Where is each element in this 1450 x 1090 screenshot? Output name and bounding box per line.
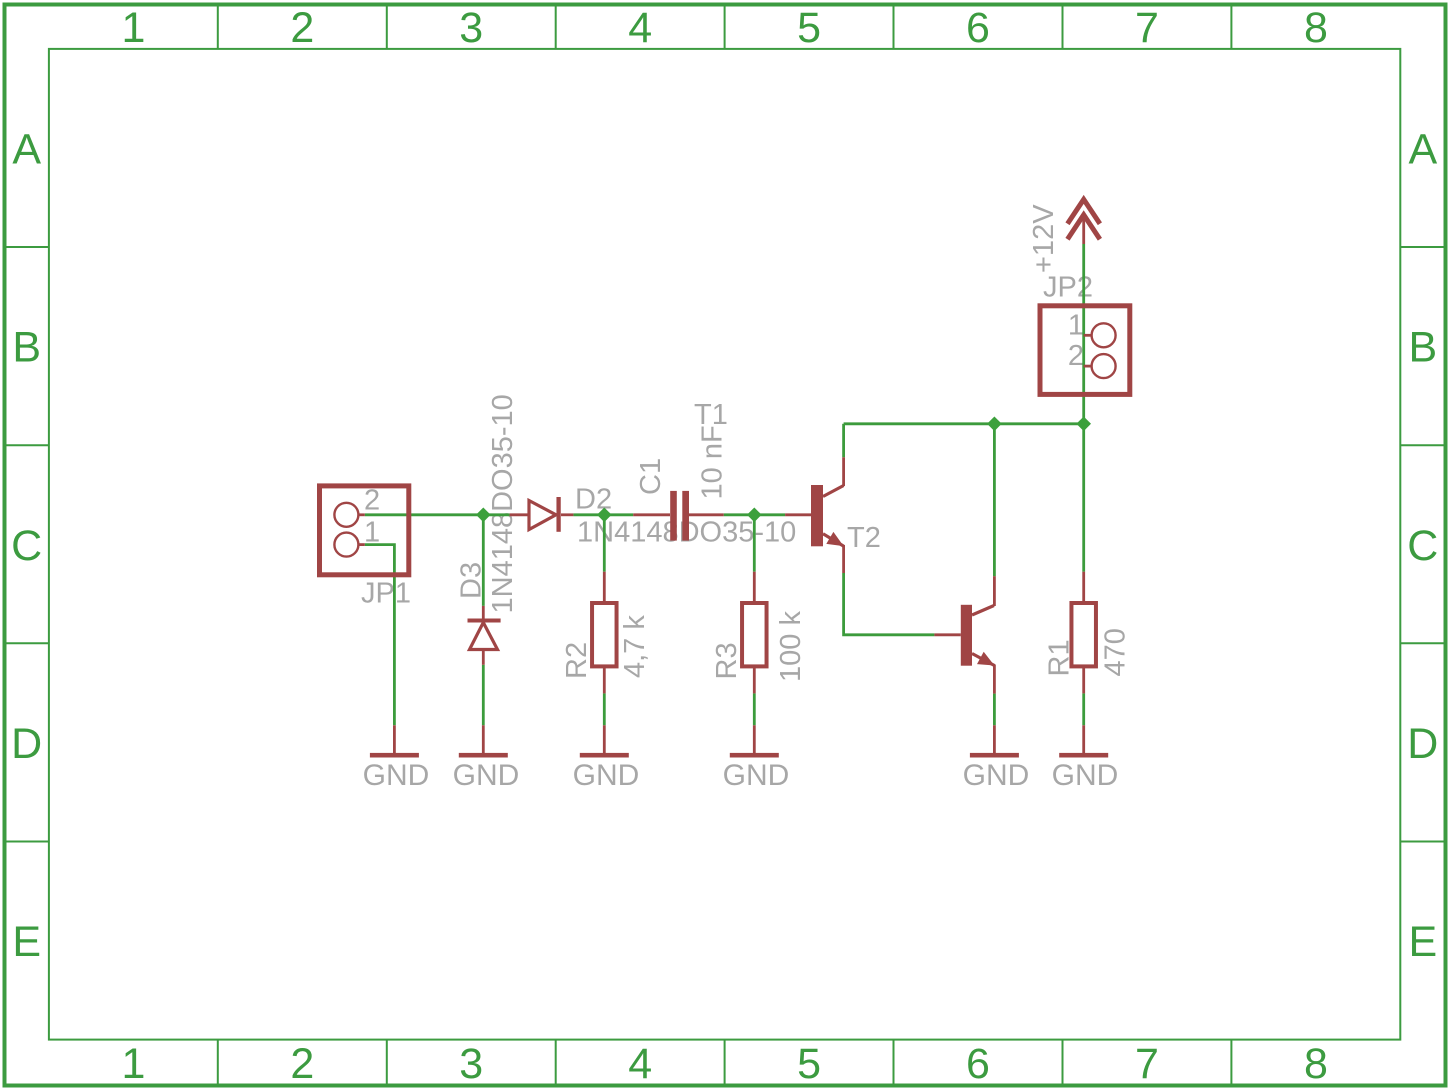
svg-text:JP2: JP2	[1043, 272, 1093, 304]
svg-text:100 k: 100 k	[775, 611, 807, 682]
svg-text:1: 1	[1068, 309, 1084, 341]
svg-text:3: 3	[459, 4, 483, 52]
svg-text:1: 1	[121, 1040, 145, 1088]
svg-text:470: 470	[1100, 628, 1132, 676]
svg-text:JP1: JP1	[361, 578, 411, 610]
svg-text:10 nF: 10 nF	[697, 425, 729, 499]
svg-text:E: E	[1408, 918, 1437, 966]
svg-text:6: 6	[966, 1040, 990, 1088]
svg-text:5: 5	[797, 1040, 821, 1088]
svg-text:R2: R2	[561, 642, 593, 679]
svg-text:D: D	[11, 720, 42, 768]
svg-text:2: 2	[290, 1040, 314, 1088]
svg-text:GND: GND	[963, 759, 1030, 792]
svg-text:7: 7	[1135, 4, 1159, 52]
svg-text:T2: T2	[847, 522, 881, 554]
svg-text:7: 7	[1135, 1040, 1159, 1088]
svg-text:R3: R3	[711, 642, 743, 679]
svg-text:GND: GND	[573, 759, 640, 792]
svg-text:+12V: +12V	[1028, 204, 1060, 273]
svg-text:A: A	[1408, 126, 1437, 174]
svg-text:2: 2	[290, 4, 314, 52]
svg-text:C: C	[1407, 522, 1438, 570]
svg-text:3: 3	[459, 1040, 483, 1088]
svg-text:4,7 k: 4,7 k	[619, 615, 651, 678]
svg-text:C: C	[11, 522, 42, 570]
svg-text:1N4148DO35-10: 1N4148DO35-10	[487, 394, 519, 613]
svg-text:B: B	[12, 324, 41, 372]
svg-text:E: E	[12, 918, 41, 966]
svg-text:8: 8	[1304, 1040, 1328, 1088]
svg-text:8: 8	[1304, 4, 1328, 52]
svg-text:A: A	[12, 126, 41, 174]
svg-text:GND: GND	[723, 759, 790, 792]
svg-text:5: 5	[797, 4, 821, 52]
svg-text:2: 2	[364, 485, 380, 517]
svg-text:C1: C1	[635, 458, 667, 495]
svg-text:GND: GND	[1052, 759, 1119, 792]
svg-text:B: B	[1408, 324, 1437, 372]
svg-text:2: 2	[1068, 340, 1084, 372]
svg-text:4: 4	[628, 4, 652, 52]
svg-text:6: 6	[966, 4, 990, 52]
svg-text:1: 1	[121, 4, 145, 52]
svg-text:4: 4	[628, 1040, 652, 1088]
svg-text:D: D	[1407, 720, 1438, 768]
svg-text:GND: GND	[363, 759, 430, 792]
svg-text:GND: GND	[453, 759, 520, 792]
